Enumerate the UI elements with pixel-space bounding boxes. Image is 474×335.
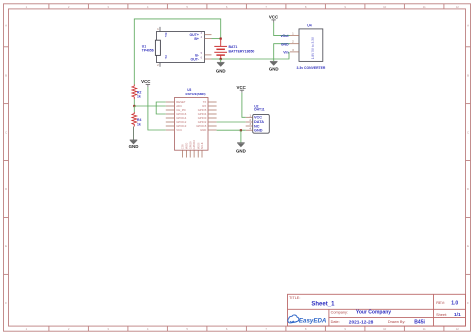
- svg-text:A: A: [467, 24, 469, 28]
- svg-text:B: B: [467, 74, 469, 78]
- svg-text:11: 11: [423, 5, 426, 9]
- svg-text:IN+: IN+: [164, 33, 168, 38]
- svg-text:1/1: 1/1: [454, 312, 461, 318]
- svg-text:D: D: [5, 187, 7, 191]
- pin NC (3): [246, 125, 253, 127]
- svg-text:GND: GND: [200, 128, 206, 132]
- svg-text:IN-: IN-: [164, 55, 168, 59]
- bottom pin stubs: [183, 150, 203, 157]
- svg-text:B+: B+: [194, 37, 199, 41]
- svg-text:GND: GND: [254, 129, 263, 133]
- ground under battery: [216, 59, 226, 74]
- wire: OUT- to battery-: [212, 58, 221, 60]
- svg-text:Drawn By:: Drawn By:: [388, 320, 406, 324]
- svg-text:A: A: [5, 24, 7, 28]
- VCC flag at DHT11: [237, 85, 247, 93]
- wire: VCC to converter VOut: [274, 23, 290, 36]
- resistor R2: [132, 85, 141, 100]
- pin Vin (3): [290, 51, 299, 53]
- left pin names: [176, 100, 187, 132]
- svg-text:GND: GND: [269, 66, 279, 71]
- ground under converter: [269, 61, 279, 71]
- pin OUT+ (3): [205, 34, 212, 36]
- svg-text:GPIO9: GPIO9: [188, 141, 192, 149]
- svg-text:VCC: VCC: [237, 85, 247, 90]
- right pin names: [196, 100, 207, 132]
- svg-text:GND: GND: [129, 144, 139, 149]
- wire: junction to ESP ADC: [134, 105, 166, 107]
- ground under R4: [129, 140, 139, 149]
- svg-text:SCLK: SCLK: [200, 142, 204, 149]
- svg-text:CS0: CS0: [181, 144, 185, 150]
- svg-text:U4: U4: [307, 24, 311, 28]
- pin IN+ (1): [159, 27, 161, 32]
- component U4 3.3v converter: [281, 24, 326, 71]
- VCC flag at divider: [141, 79, 151, 87]
- pin B+ (4): [205, 38, 212, 40]
- pin B- (5): [205, 54, 212, 56]
- svg-text:12: 12: [456, 327, 460, 331]
- wire: junction down to ground: [240, 130, 242, 143]
- svg-text:vOut: vOut: [281, 34, 290, 38]
- svg-text:B: B: [5, 74, 7, 78]
- pin VOut (1): [290, 35, 299, 37]
- svg-text:10: 10: [383, 5, 387, 9]
- pin DATA (2): [246, 121, 253, 123]
- resistor R4: [132, 106, 141, 127]
- svg-text:E: E: [467, 244, 469, 248]
- VCC flag at converter: [269, 14, 279, 22]
- svg-text:11: 11: [423, 327, 426, 331]
- wire: VCC to DHT11 VCC: [242, 93, 246, 118]
- junction divider: [133, 105, 135, 107]
- title block: [288, 294, 466, 326]
- wire: B+ to battery: [212, 38, 221, 40]
- svg-text:12: 12: [456, 5, 460, 9]
- svg-text:F: F: [467, 301, 469, 305]
- svg-text:DHT11: DHT11: [254, 107, 264, 111]
- svg-text:TP4056: TP4056: [142, 49, 154, 53]
- battery BAT1 BATTERY18650: [214, 39, 254, 59]
- wire: VCC to ESP VCC pin: [148, 87, 166, 130]
- svg-text:1.8V 5V to 3.3V: 1.8V 5V to 3.3V: [311, 36, 315, 59]
- svg-text:VCC: VCC: [176, 128, 182, 132]
- wire: battery- rail to converter Vin: [221, 52, 289, 59]
- svg-text:B45i: B45i: [414, 319, 425, 325]
- title block labels: [289, 296, 447, 324]
- pin GND (4): [246, 129, 253, 131]
- svg-text:MISO: MISO: [185, 143, 189, 150]
- svg-text:1.0: 1.0: [451, 300, 458, 306]
- right pin stubs: [208, 102, 217, 130]
- svg-text:10: 10: [383, 327, 387, 331]
- junction battery -: [220, 58, 222, 60]
- svg-text:GND: GND: [236, 148, 246, 153]
- svg-text:BAT1: BAT1: [229, 45, 238, 49]
- svg-text:VCC: VCC: [254, 116, 262, 120]
- left pin stubs: [166, 102, 175, 130]
- svg-text:F: F: [5, 301, 7, 305]
- svg-text:Sheet_1: Sheet_1: [311, 301, 335, 307]
- pin IN- (2): [159, 63, 161, 67]
- title block values: [311, 300, 461, 325]
- svg-text:GND: GND: [281, 42, 289, 46]
- component U2 DHT11: [246, 104, 270, 133]
- ground under DHT11: [236, 143, 246, 154]
- svg-text:D: D: [467, 187, 469, 191]
- svg-text:VCC: VCC: [269, 14, 279, 19]
- svg-text:Your Company: Your Company: [356, 309, 391, 315]
- svg-text:ESP12E(SMD): ESP12E(SMD): [186, 92, 206, 96]
- svg-text:MOSI: MOSI: [196, 142, 200, 149]
- svg-text:BATTERY18650: BATTERY18650: [229, 50, 255, 54]
- svg-text:C: C: [5, 130, 7, 134]
- svg-text:1k: 1k: [137, 95, 141, 99]
- svg-text:REV:: REV:: [436, 301, 445, 305]
- EasyEDA logo: [288, 315, 327, 324]
- svg-text:VCC: VCC: [141, 79, 151, 84]
- svg-text:TITLE:: TITLE:: [289, 296, 300, 300]
- svg-text:Vin: Vin: [283, 51, 288, 55]
- svg-text:1k: 1k: [137, 122, 141, 126]
- svg-text:C: C: [467, 130, 469, 134]
- wire: R2 to junction: [133, 99, 135, 106]
- wire: ESP GND to DHT11 GND: [217, 129, 246, 131]
- wire: ESP GPIO2 to DHT11 DATA: [217, 121, 246, 123]
- svg-text:E: E: [5, 244, 7, 248]
- svg-text:3.3v CONVERTER: 3.3v CONVERTER: [297, 66, 326, 70]
- junction DHT11 ground: [240, 129, 242, 131]
- junction battery +: [220, 38, 222, 40]
- svg-text:Sheet:: Sheet:: [436, 313, 447, 317]
- svg-text:OUT-: OUT-: [191, 58, 200, 62]
- wire: converter GND pin down: [274, 44, 290, 62]
- svg-text:Date:: Date:: [331, 320, 340, 324]
- wire: top rail battery+ to R2: [134, 19, 220, 85]
- component U3 ESP12E(SMD): [166, 88, 217, 157]
- svg-text:GND: GND: [216, 69, 226, 74]
- svg-text:2021-12-28: 2021-12-28: [349, 319, 374, 325]
- svg-text:EasyEDA: EasyEDA: [299, 317, 327, 324]
- wire: R4 to ground: [133, 127, 135, 141]
- pin GND (2): [290, 43, 299, 45]
- bottom pin names (vertical): [181, 139, 205, 149]
- wire: GPIO16 to RESET bracket: [156, 102, 166, 114]
- pin VCC (1): [246, 116, 253, 118]
- svg-text:GPIO10: GPIO10: [192, 139, 196, 149]
- pin OUT- (6): [205, 58, 212, 60]
- svg-text:Company:: Company:: [331, 310, 348, 314]
- component U1 TP4056: [142, 27, 212, 67]
